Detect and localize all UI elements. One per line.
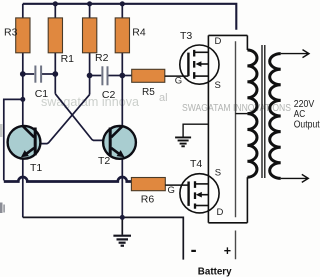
svg-text:C2: C2 [102, 89, 116, 101]
svg-text:T2: T2 [98, 155, 110, 167]
svg-text:SWAGATAM INNOVATIONS: SWAGATAM INNOVATIONS [182, 102, 291, 114]
svg-text:D: D [215, 36, 222, 47]
svg-text:Battery: Battery [198, 266, 232, 277]
svg-text:R5: R5 [142, 87, 155, 98]
svg-text:al: al [159, 92, 168, 104]
svg-text:D: D [217, 207, 224, 218]
svg-text:+: + [224, 244, 231, 258]
svg-text:C1: C1 [35, 88, 49, 100]
svg-text:S: S [215, 168, 221, 179]
svg-text:swagatam innova: swagatam innova [41, 95, 139, 109]
svg-text:G: G [175, 75, 182, 86]
svg-text:R6: R6 [141, 194, 155, 206]
svg-text:T3: T3 [180, 30, 192, 42]
svg-text:G: G [168, 185, 175, 196]
svg-text:R3: R3 [4, 26, 18, 38]
svg-text:R4: R4 [132, 26, 146, 38]
svg-text:R2: R2 [95, 52, 109, 64]
svg-text:T1: T1 [30, 162, 42, 174]
svg-text:Output: Output [294, 120, 320, 131]
svg-text:S: S [215, 80, 221, 91]
svg-text:AC: AC [294, 109, 306, 120]
svg-text:T4: T4 [190, 158, 202, 170]
svg-text:R1: R1 [61, 53, 75, 65]
